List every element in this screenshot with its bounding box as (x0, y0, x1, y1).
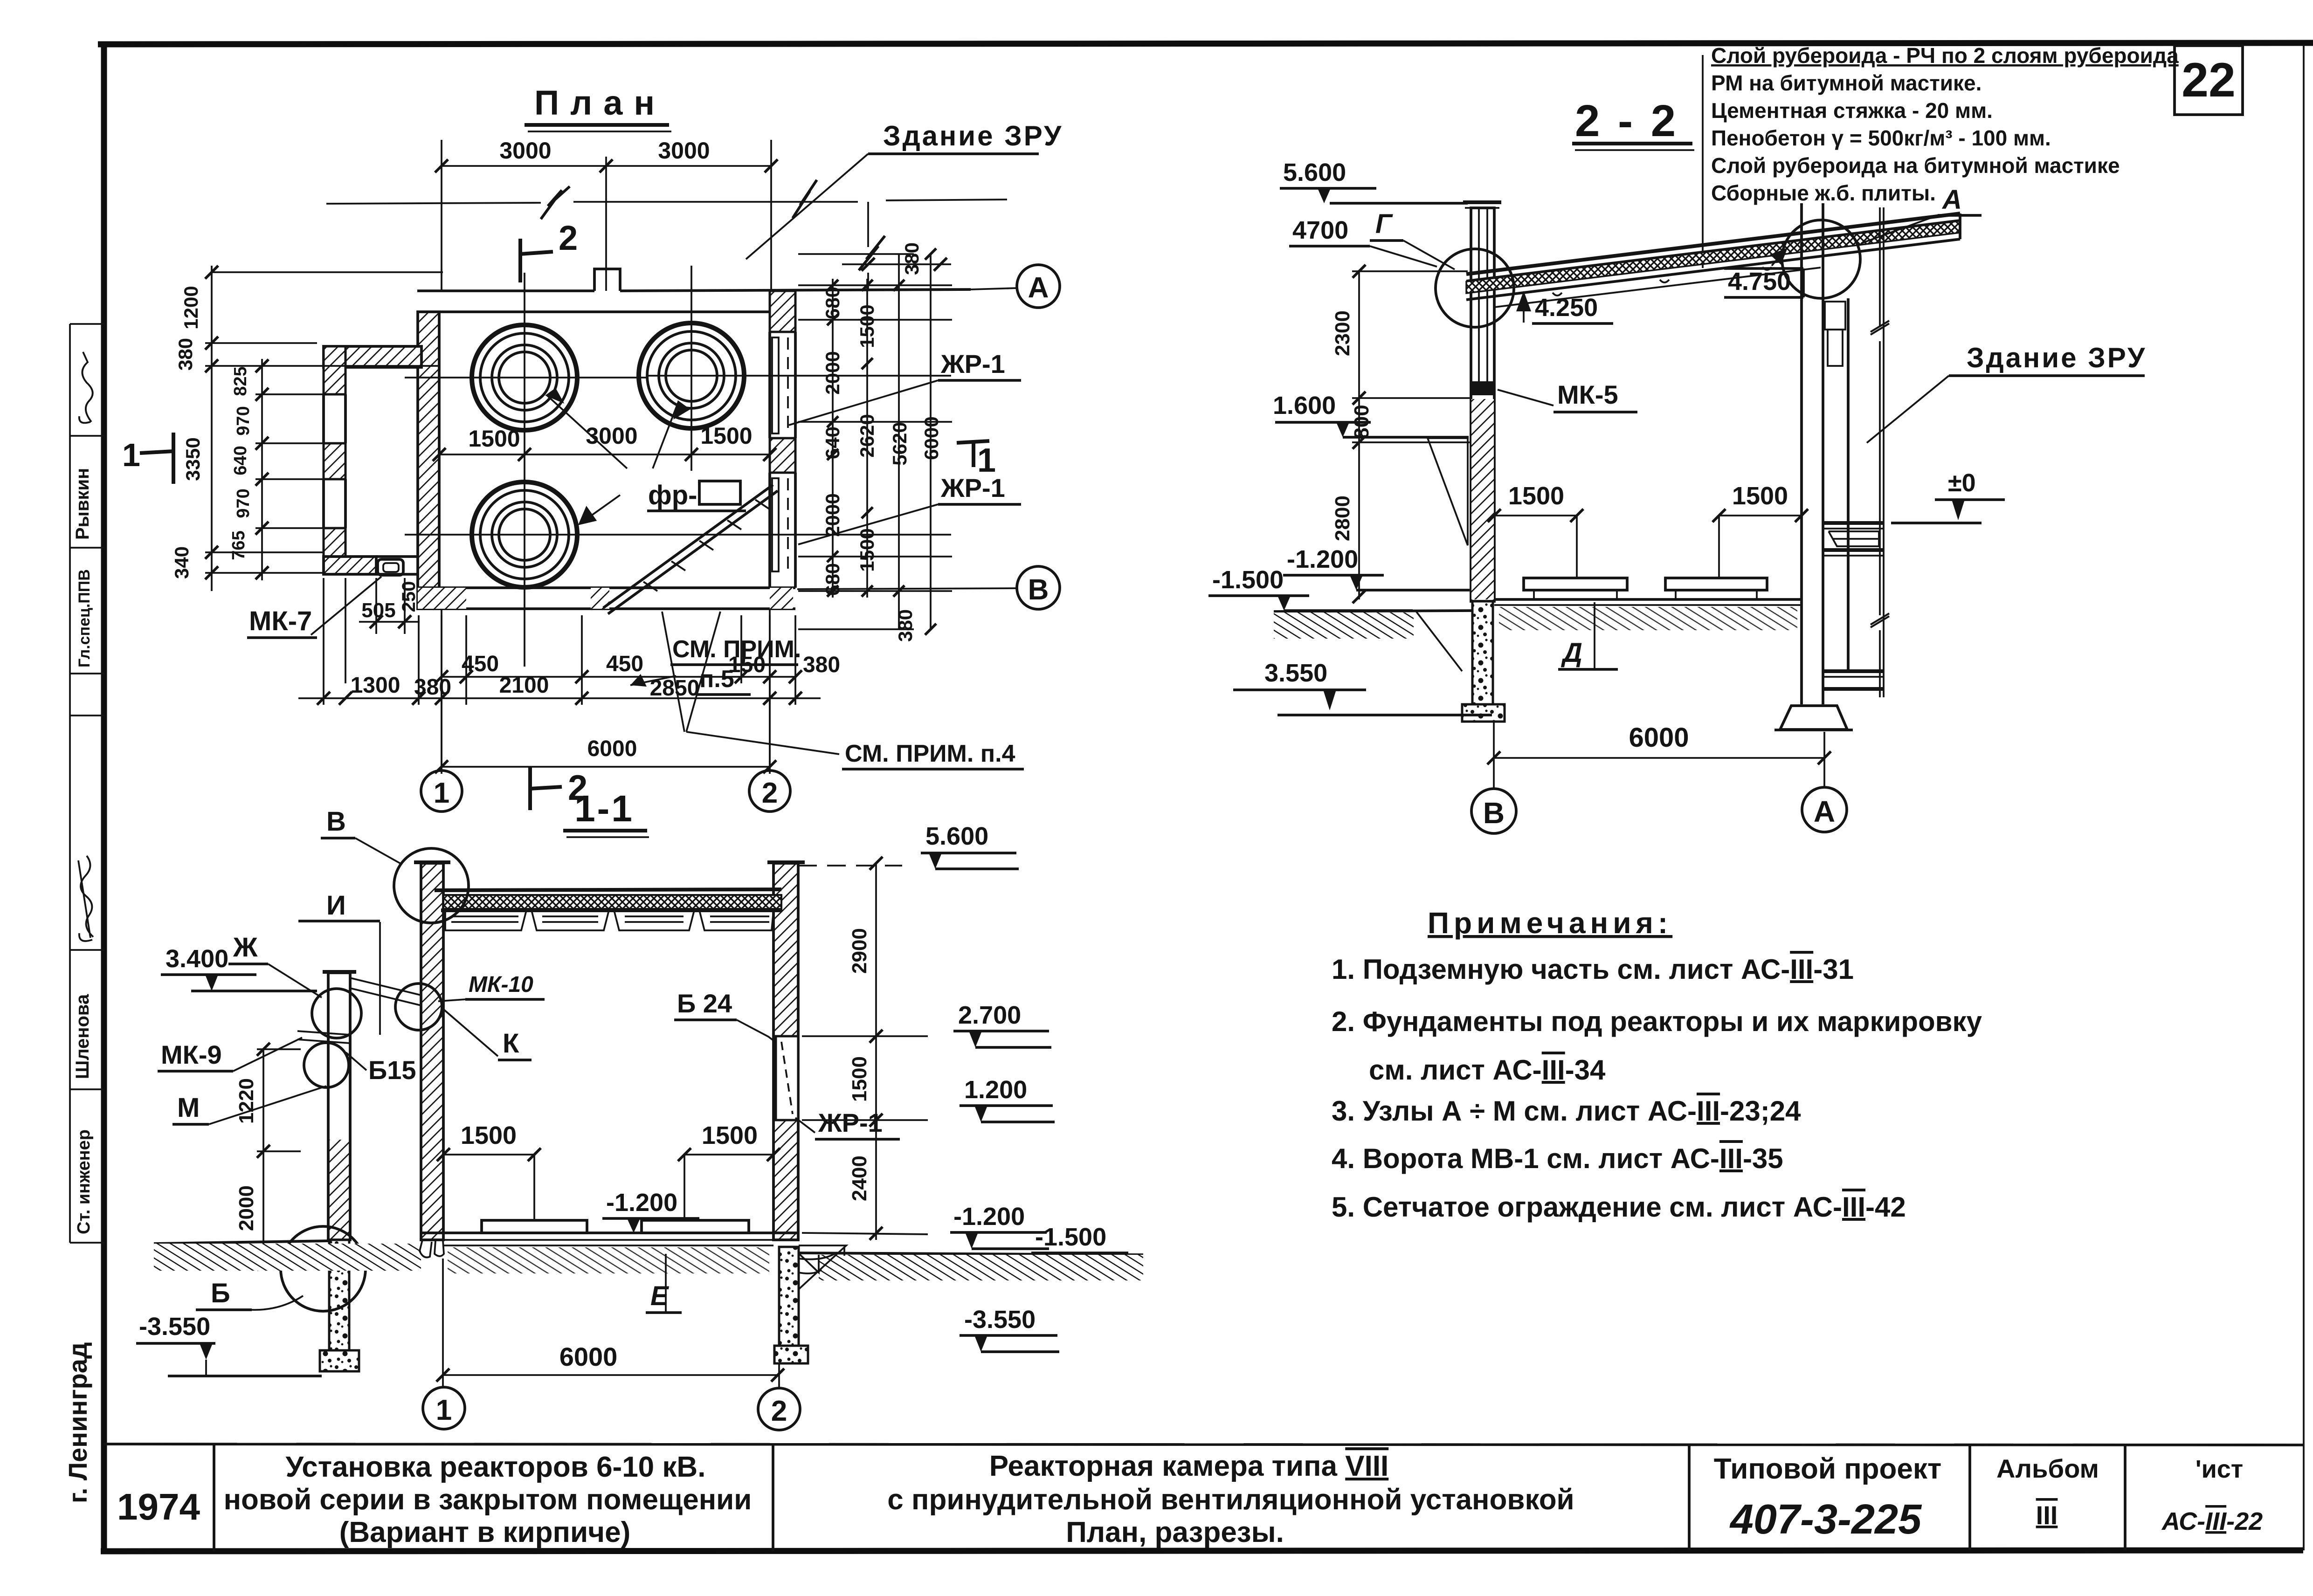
door ZhR-1 in wall 2 (776, 1036, 798, 1120)
MK-7 embedded element (378, 559, 403, 575)
dims 1500 inside 1-1 (437, 1121, 780, 1219)
svg-text:В: В (1028, 574, 1049, 606)
svg-text:6000: 6000 (920, 416, 942, 460)
wall axis 2 (hatched) (767, 862, 805, 1240)
ribbed precast plates (445, 910, 773, 930)
label E (646, 1254, 682, 1313)
svg-text:970: 970 (234, 406, 253, 435)
svg-text:3. Узлы А ÷ М см. лис: 3. Узлы А ÷ М см. лист АС-III-23;24 (1332, 1095, 1801, 1127)
svg-text:ЖР-1: ЖР-1 (940, 349, 1005, 378)
level 3.550 (2-2) (1233, 659, 1492, 715)
page right border (2303, 44, 2305, 1550)
svg-text:680: 680 (822, 287, 843, 319)
svg-text:2000: 2000 (822, 493, 843, 537)
plan axis circle 1 (421, 609, 462, 812)
footing of A column (1774, 706, 1853, 730)
broken far line of ZRU building (326, 199, 1007, 204)
mid dim row 1500 3000 1500 (433, 423, 776, 461)
reactor pads 2-2 (1524, 578, 1767, 598)
louver dim chain 825/970/640/970/765 (255, 359, 324, 580)
svg-text:640: 640 (231, 446, 250, 475)
label MK-7 (247, 577, 381, 638)
label Zdanie ZRU (2-2) (1867, 342, 2147, 443)
svg-text:765: 765 (229, 530, 249, 560)
left dim column 2-2 (1352, 271, 1470, 599)
label SM PRIM p4 (842, 740, 1024, 769)
svg-text:В: В (1483, 796, 1505, 830)
label V (321, 806, 400, 863)
svg-text:2400: 2400 (848, 1156, 871, 1201)
level 2.700 (953, 1001, 1051, 1047)
svg-text:План: План (534, 83, 666, 122)
break zigzag 1 (541, 186, 570, 219)
level -1.200 right (950, 1203, 1049, 1249)
svg-text:640: 640 (822, 427, 843, 459)
dim 6000 (2-2) (1487, 722, 1831, 789)
svg-text:1. Подземную часть см. лист: 1. Подземную часть см. лист АС-III-31 (1332, 954, 1854, 985)
level -1.200 floor label (602, 1189, 699, 1233)
label 4.250 with up arrow (1516, 291, 1613, 323)
svg-text:2800: 2800 (1331, 495, 1354, 541)
east dim chains (798, 254, 952, 629)
svg-text:-3.550: -3.550 (964, 1306, 1036, 1334)
svg-text:новой серии в закрытом поме: новой серии в закрытом помещении (224, 1484, 752, 1516)
wall axis B (left) (1462, 202, 1505, 722)
svg-text:Б 24: Б 24 (677, 989, 732, 1018)
axis circle 1 bottom (423, 1387, 465, 1429)
level -3.550 left (136, 1313, 322, 1376)
axis circle A (2-2) (1802, 787, 1847, 832)
outdoor portal column (320, 972, 359, 1371)
svg-text:'ист: 'ист (2196, 1455, 2244, 1483)
signature scribble top (79, 352, 93, 423)
svg-text:407-3-225: 407-3-225 (1729, 1496, 1922, 1543)
title block (104, 1444, 2303, 1551)
label Zh + node circle (228, 932, 361, 1038)
svg-text:2. Фундаменты под реакторы: 2. Фундаменты под реакторы и их маркиров… (1332, 1006, 1982, 1037)
svg-text:2.700: 2.700 (958, 1001, 1021, 1029)
svg-text:2300: 2300 (1331, 310, 1354, 356)
top right spec text block (1702, 55, 1704, 268)
svg-text:3000: 3000 (499, 138, 551, 164)
level -3.550 right (960, 1306, 1059, 1352)
svg-text:М: М (177, 1093, 200, 1123)
svg-text:2000: 2000 (822, 351, 843, 394)
svg-text:Установка реакторов 6-10 кВ.: Установка реакторов 6-10 кВ. (286, 1451, 706, 1483)
svg-text:4.750: 4.750 (1728, 268, 1791, 296)
label A top right (1861, 185, 1982, 243)
sheet number box 22 (2175, 46, 2243, 115)
label B24 (674, 989, 776, 1042)
svg-text:Слой рубероида - РЧ по 2 сло: Слой рубероида - РЧ по 2 слоям рубероида (1711, 43, 2179, 68)
svg-text:6000: 6000 (1629, 722, 1689, 753)
door frame upper ZhR-1 (772, 337, 779, 433)
annex bottom wall (324, 557, 419, 574)
svg-text:±0: ±0 (1948, 469, 1976, 497)
svg-text:фр-: фр- (648, 480, 697, 510)
svg-text:6000: 6000 (559, 1342, 618, 1371)
svg-text:2000: 2000 (235, 1185, 258, 1231)
svg-text:380: 380 (894, 609, 916, 642)
plan axis circle 2 (749, 609, 790, 812)
section flag 2 bottom (530, 767, 587, 810)
svg-text:Г: Г (1375, 209, 1393, 239)
MK-5 embedded plate (black) (1470, 381, 1495, 395)
svg-text:1.200: 1.200 (964, 1076, 1027, 1104)
page left border (101, 42, 107, 1552)
shallow anchor under wall 1 (420, 1240, 444, 1258)
grid circle B (797, 566, 1060, 609)
level +-0 (1891, 469, 2005, 523)
label B15 (346, 1053, 416, 1085)
level 1.200 (960, 1076, 1055, 1122)
svg-text:3000: 3000 (658, 138, 710, 164)
ground left 2-2 (1274, 611, 1472, 671)
svg-text:505: 505 (361, 599, 395, 622)
svg-text:1.600: 1.600 (1273, 392, 1336, 420)
label ZhR-1 section (795, 1108, 900, 1139)
svg-text:Реакторная камера типа: Реакторная камера типа VIII (989, 1450, 1389, 1482)
svg-text:МК-7: МК-7 (249, 606, 312, 636)
svg-text:с принудительной вентиляцион: с принудительной вентиляционной установк… (887, 1484, 1574, 1516)
node circle A (right bearing) (1782, 220, 1860, 298)
floor slab of chamber (421, 1233, 798, 1273)
svg-text:А: А (1028, 272, 1049, 304)
svg-text:380: 380 (901, 242, 923, 275)
svg-text:1200: 1200 (180, 286, 202, 329)
svg-text:5620: 5620 (889, 422, 911, 465)
label SM PRIM p5 (630, 636, 801, 695)
svg-text:2: 2 (762, 777, 778, 809)
svg-text:Б: Б (211, 1278, 230, 1308)
reactor R1 centerlines (405, 273, 648, 667)
svg-text:3350: 3350 (182, 437, 204, 481)
section flag 1 left (122, 433, 173, 484)
signature scribble 2 (78, 856, 93, 941)
wall axis A (right) and ZRU building (1802, 203, 1848, 704)
svg-text:1500: 1500 (856, 528, 878, 571)
sloped brace at wall B (1428, 438, 1468, 545)
svg-text:Ст. инженер: Ст. инженер (74, 1129, 94, 1234)
annex louvered west wall (324, 346, 345, 557)
svg-text:1220: 1220 (235, 1078, 258, 1124)
svg-text:380: 380 (174, 338, 196, 371)
label D (2-2) (1558, 602, 1618, 669)
svg-text:см. лист АС-III-34: см. лист АС-III-34 (1369, 1054, 1606, 1086)
ground left of 1-1 (154, 1241, 421, 1271)
svg-text:МК-9: МК-9 (161, 1040, 222, 1069)
west dim chain 1200/380/3350/340 (205, 266, 443, 591)
svg-text:1: 1 (977, 442, 996, 479)
svg-text:4700: 4700 (1292, 216, 1348, 244)
floor 2-2 (1494, 599, 1802, 630)
svg-text:1500: 1500 (700, 423, 752, 449)
reactor foundation pads 1-1 (482, 1220, 749, 1233)
svg-text:1300: 1300 (351, 673, 400, 698)
svg-text:3000: 3000 (586, 423, 637, 449)
svg-text:Примечания:: Примечания: (1428, 906, 1672, 940)
svg-text:г. Ленинград: г. Ленинград (63, 1342, 92, 1503)
svg-text:380: 380 (414, 675, 451, 700)
label MK-9 (158, 1038, 302, 1071)
svg-text:1: 1 (122, 437, 140, 473)
ground right of 1-1 (798, 1253, 1143, 1280)
svg-text:Типовой проект: Типовой проект (1714, 1453, 1942, 1485)
svg-text:Цементная стяжка - 20 мм.: Цементная стяжка - 20 мм. (1711, 98, 1993, 123)
svg-text:22: 22 (2182, 53, 2236, 107)
label 4.750 (1724, 248, 1803, 297)
chamber left wall (hatched) (418, 312, 439, 609)
labels ZhR-1 east (789, 349, 1021, 544)
ZRU building wall in plan (417, 269, 971, 312)
svg-text:2: 2 (559, 219, 578, 257)
level 5.600 (2-2) (1280, 158, 1468, 203)
label K (444, 1010, 532, 1060)
svg-text:825: 825 (231, 366, 250, 396)
svg-text:РМ на битумной мастике.: РМ на битумной мастике. (1711, 71, 1982, 95)
svg-text:1500: 1500 (1508, 482, 1564, 510)
svg-text:340: 340 (171, 546, 193, 579)
label B + big node circle at ground (196, 1226, 366, 1311)
svg-text:ЖР-1: ЖР-1 (818, 1108, 883, 1137)
dim 4700 (1289, 216, 1437, 267)
svg-text:1500: 1500 (1732, 482, 1788, 510)
left staff column cells (70, 324, 104, 1243)
beam I from column to wall (350, 922, 421, 1035)
sloped roof slab 2-2 (1466, 213, 1960, 307)
svg-text:Альбом: Альбом (1996, 1454, 2099, 1483)
bottom dim 6000 of 1-1 (436, 1259, 784, 1389)
label M (173, 1086, 326, 1124)
svg-text:(Вариант в кирпиче): (Вариант в кирпиче) (339, 1516, 630, 1548)
svg-text:К: К (503, 1028, 519, 1059)
title cell: ustanovka reaktorov (224, 1451, 752, 1548)
annex top wall (324, 346, 421, 367)
label fr- with frame (647, 480, 746, 511)
svg-text:1500: 1500 (856, 304, 878, 348)
svg-text:-1.500: -1.500 (1035, 1223, 1106, 1251)
svg-text:1500: 1500 (468, 426, 520, 452)
bottom dim rows (298, 578, 821, 774)
ZRU outer wall (1871, 207, 1889, 697)
level -1.200 (2-2) (1283, 545, 1470, 590)
svg-text:1500: 1500 (702, 1121, 758, 1149)
ZRU floors (1823, 523, 1884, 689)
svg-text:680: 680 (822, 563, 843, 596)
svg-text:6000: 6000 (587, 736, 637, 761)
grid circle A (971, 265, 1060, 308)
svg-text:3.400: 3.400 (166, 945, 228, 973)
svg-text:2100: 2100 (499, 673, 549, 698)
dim 505 + 250 below annex (359, 578, 420, 634)
svg-text:450: 450 (462, 652, 499, 676)
svg-text:А: А (1941, 185, 1962, 215)
svg-text:Гл.спец.ППВ: Гл.спец.ППВ (76, 569, 93, 667)
node circle G (left bearing) (1436, 249, 1514, 327)
svg-text:В: В (326, 806, 346, 837)
svg-text:2: 2 (771, 1395, 787, 1427)
label MK-5 (1498, 380, 1637, 412)
svg-text:5. Сетчатое ограждение см.: 5. Сетчатое ограждение см. лист АС-III-4… (1332, 1191, 1906, 1223)
open door leaf diagonal (see note 5 fence) (603, 485, 778, 614)
wall axis 1 (hatched) (414, 862, 450, 1240)
title cell: reaktornaya kamera (887, 1450, 1574, 1548)
section flag 2 top (520, 219, 578, 282)
label G (1370, 209, 1455, 269)
svg-text:Рывкин: Рывкин (72, 468, 93, 540)
reactor R2 centerlines (648, 266, 951, 471)
gate leader V to note p4 (662, 612, 839, 754)
reactor R3 plan circles (472, 482, 577, 587)
dim 1220/2000 left (257, 1049, 301, 1264)
reactor R1 plan circles (472, 325, 577, 430)
break zigzag 2 (793, 180, 817, 218)
svg-text:-3.550: -3.550 (139, 1313, 210, 1341)
svg-text:-1.200: -1.200 (953, 1203, 1025, 1231)
svg-text:2 - 2: 2 - 2 (1575, 96, 1678, 146)
svg-text:250: 250 (399, 581, 419, 612)
svg-text:3.550: 3.550 (1264, 659, 1327, 687)
svg-text:МК-10: МК-10 (469, 972, 533, 997)
label Zdanie ZRU plan (746, 120, 1063, 259)
svg-text:4.250: 4.250 (1535, 294, 1598, 322)
label I (298, 890, 380, 921)
dims 1500 (2-2) (1488, 482, 1808, 577)
svg-text:1-1: 1-1 (574, 788, 634, 829)
level -1.500 right (1031, 1223, 1131, 1269)
svg-text:5.600: 5.600 (925, 822, 988, 850)
label MK-10 + node circle on wall (395, 972, 545, 1030)
notes block (1332, 906, 1982, 1223)
level 5.600 right of 1-1 (798, 822, 1019, 869)
svg-text:-1.500: -1.500 (1212, 566, 1284, 594)
svg-text:Здание ЗРУ: Здание ЗРУ (1967, 342, 2147, 373)
chamber bottom wall (418, 588, 795, 609)
roof slab assembly (435, 889, 782, 930)
svg-text:План, разрезы.: План, разрезы. (1066, 1516, 1284, 1548)
svg-text:1: 1 (436, 1394, 452, 1426)
reactor R3 centerline horizontal (405, 534, 951, 536)
chamber east wall with doors (770, 291, 795, 588)
deep foundation under wall 2 (774, 1245, 846, 1363)
right dim column of 1-1 (802, 863, 928, 1240)
svg-text:1: 1 (434, 777, 449, 809)
level 3.400 left (161, 945, 317, 991)
extension line x1862 with break (842, 202, 951, 291)
svg-text:Пенобетон γ = 500кг/м³ - 100: Пенобетон γ = 500кг/м³ - 100 мм. (1711, 126, 2051, 150)
svg-text:1974: 1974 (117, 1486, 200, 1527)
svg-text:-1.200: -1.200 (1287, 545, 1358, 573)
svg-text:450: 450 (606, 652, 643, 676)
svg-text:1500: 1500 (848, 1056, 871, 1102)
section flag 1 right (957, 441, 996, 479)
svg-text:2620: 2620 (856, 414, 878, 457)
axis circle B (2-2) (1471, 789, 1516, 833)
svg-text:970: 970 (234, 488, 253, 518)
svg-text:А: А (1814, 795, 1835, 828)
svg-text:-1.200: -1.200 (606, 1189, 677, 1217)
svg-text:Д: Д (1560, 638, 1582, 668)
svg-text:5.600: 5.600 (1283, 158, 1346, 186)
svg-text:Сборные ж.б. плиты.: Сборные ж.б. плиты. (1711, 181, 1936, 205)
door frame lower ZhR-1 (772, 478, 779, 571)
MK-9 bracket + node (297, 1031, 350, 1043)
page top border (98, 43, 2313, 44)
svg-text:Слой рубероида на битумной: Слой рубероида на битумной мастике (1711, 153, 2120, 178)
svg-text:Б15: Б15 (368, 1055, 416, 1085)
level -1.500 (2-2) (1208, 566, 1413, 611)
svg-text:1500: 1500 (461, 1121, 517, 1149)
svg-text:2900: 2900 (848, 928, 871, 974)
axis circle 2 bottom (758, 1388, 800, 1430)
svg-text:Шленова: Шленова (72, 994, 93, 1079)
svg-text:МК-5: МК-5 (1557, 380, 1618, 409)
svg-text:Здание ЗРУ: Здание ЗРУ (883, 120, 1063, 151)
svg-text:III: III (2036, 1500, 2058, 1530)
svg-text:150: 150 (728, 653, 766, 677)
level 1.600 (1273, 392, 1469, 437)
top dim row 3000+3000 (435, 138, 778, 291)
reactor R2 plan circles (639, 323, 744, 428)
node circle V at wall1 top (394, 848, 469, 923)
leader arrows to reactors (547, 389, 689, 524)
svg-text:И: И (326, 890, 346, 921)
svg-text:СМ. ПРИМ. п.4: СМ. ПРИМ. п.4 (845, 740, 1015, 767)
svg-text:Ж: Ж (233, 932, 258, 963)
page bottom border (101, 1550, 2303, 1551)
svg-text:4. Ворота МВ-1 см. лист АС: 4. Ворота МВ-1 см. лист АС-III-35 (1332, 1143, 1783, 1174)
svg-text:380: 380 (803, 653, 840, 677)
svg-text:АС-III-22: АС-III-22 (2161, 1507, 2263, 1535)
